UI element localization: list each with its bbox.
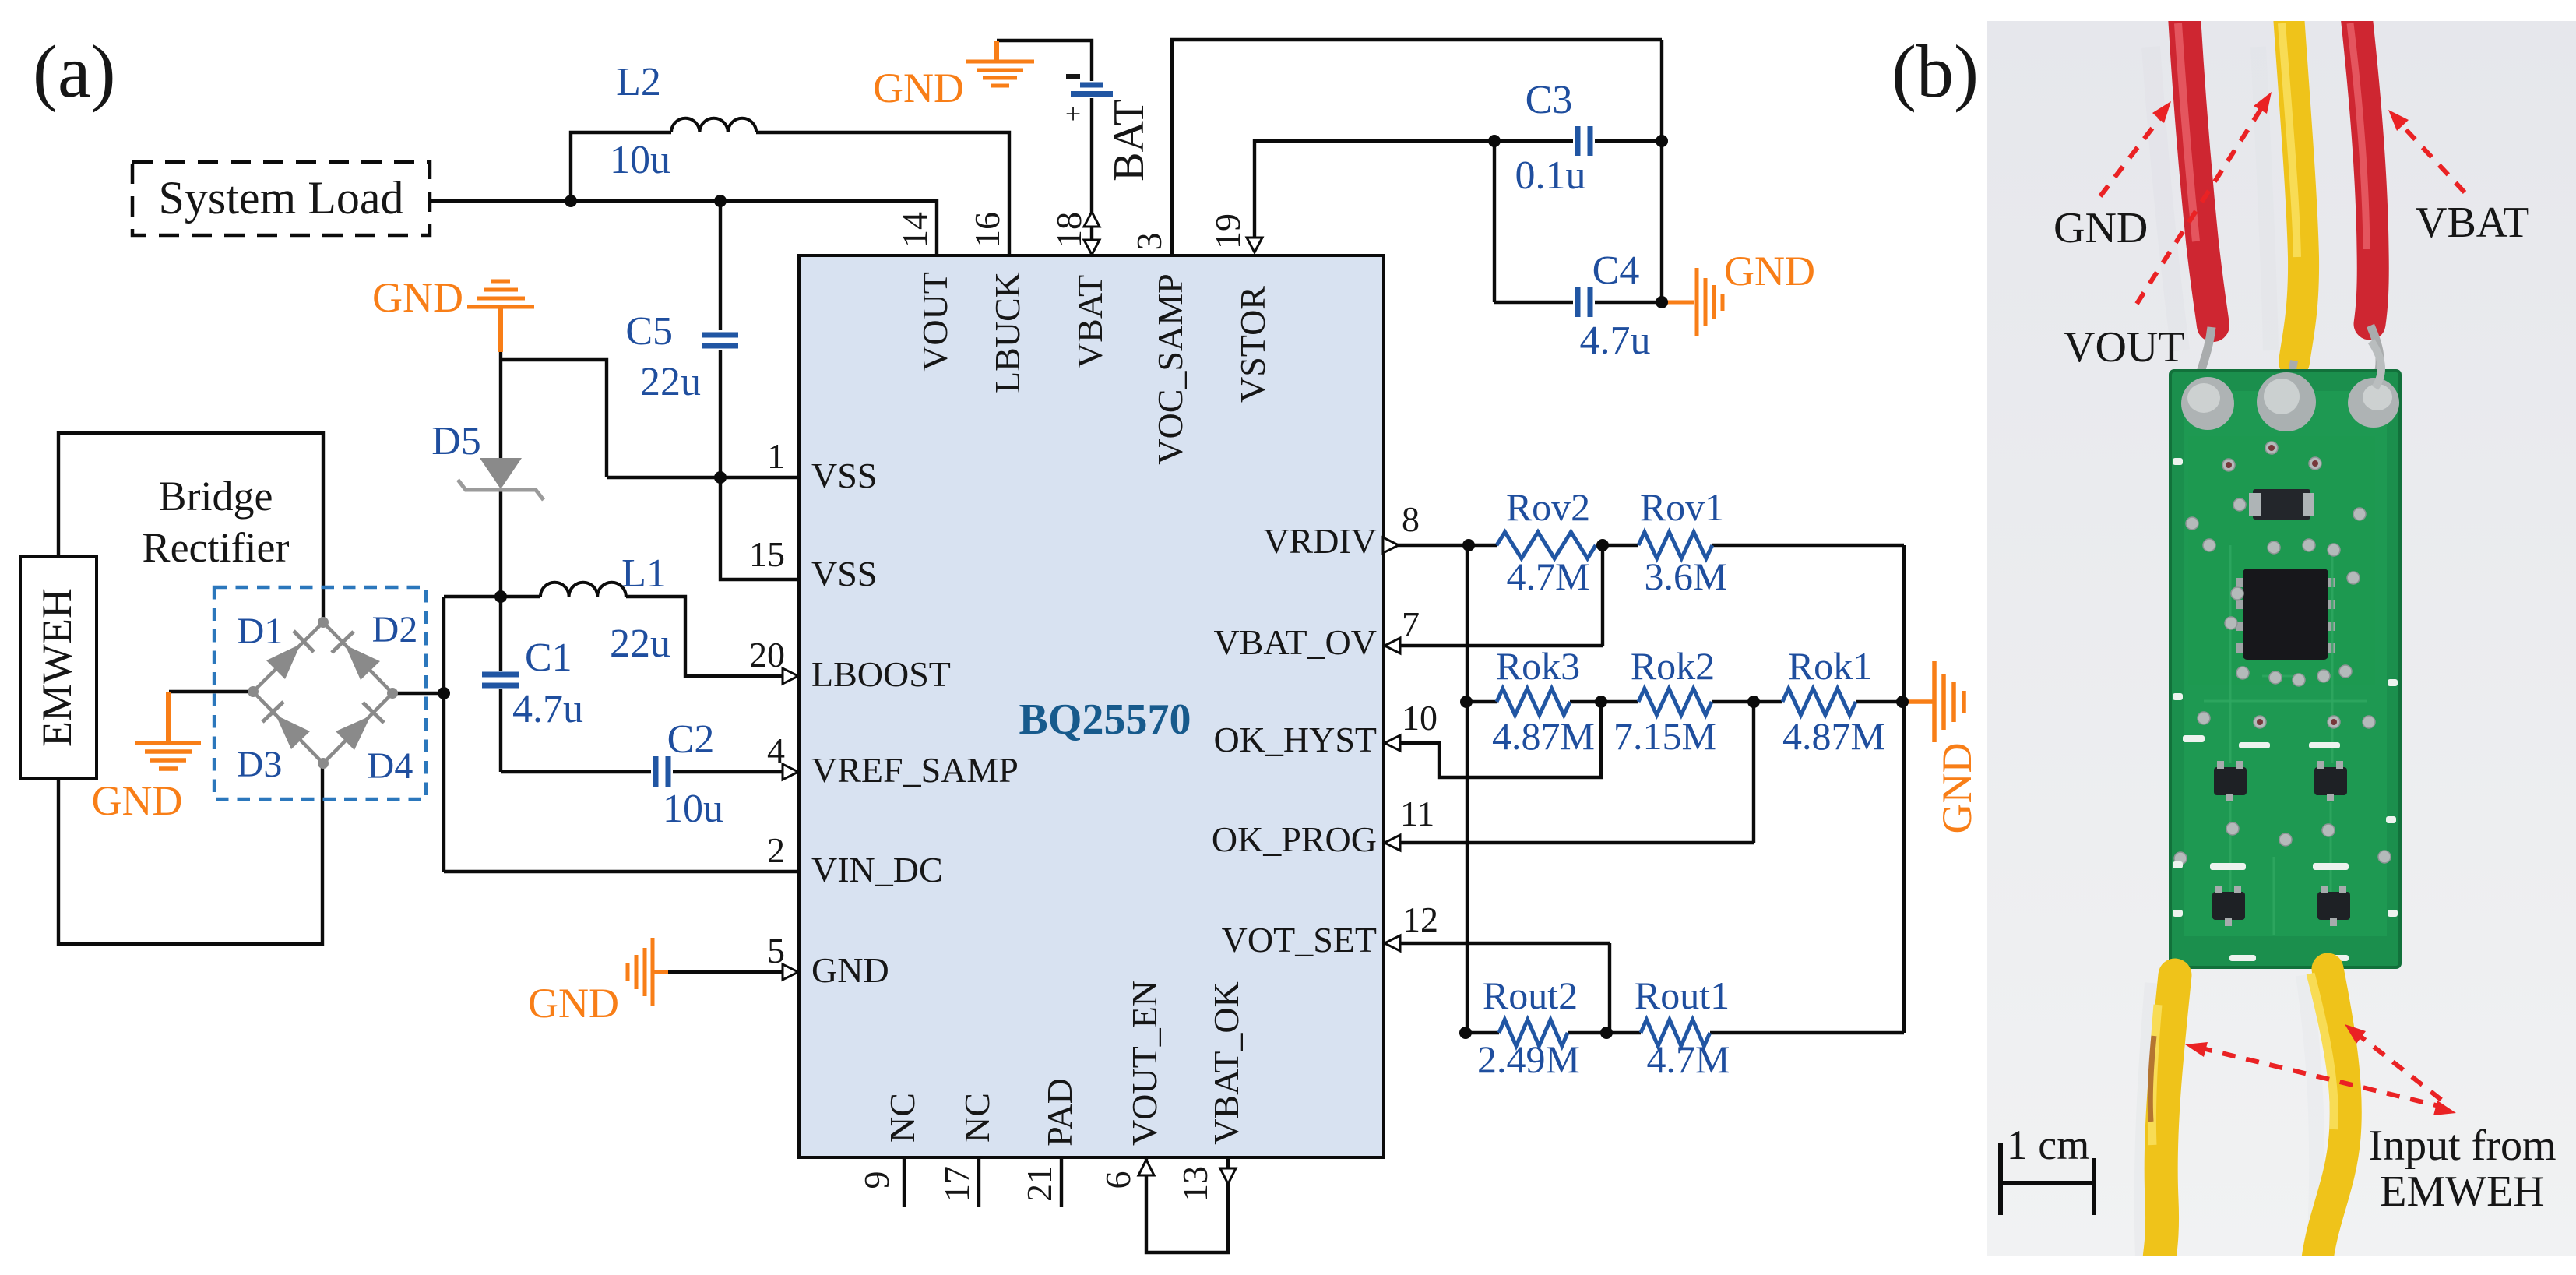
- svg-text:OK_HYST: OK_HYST: [1213, 720, 1377, 759]
- svg-text:5: 5: [767, 931, 785, 970]
- svg-text:22u: 22u: [640, 360, 701, 404]
- svg-text:+: +: [1065, 98, 1081, 129]
- svg-text:BAT: BAT: [1105, 99, 1153, 181]
- svg-text:1: 1: [767, 436, 785, 476]
- svg-text:Rov1: Rov1: [1640, 485, 1724, 529]
- svg-text:2.49M: 2.49M: [1477, 1037, 1580, 1081]
- svg-text:OK_PROG: OK_PROG: [1212, 819, 1377, 859]
- svg-text:VBAT: VBAT: [2416, 199, 2529, 247]
- svg-text:C5: C5: [625, 309, 673, 354]
- svg-text:VOC_SAMP: VOC_SAMP: [1150, 273, 1190, 464]
- svg-text:4.87M: 4.87M: [1492, 714, 1595, 758]
- svg-text:VOUT_EN: VOUT_EN: [1124, 981, 1164, 1146]
- svg-text:14: 14: [895, 212, 934, 248]
- svg-text:Bridge: Bridge: [159, 473, 273, 520]
- svg-text:VREF_SAMP: VREF_SAMP: [811, 750, 1019, 790]
- svg-text:4.7u: 4.7u: [512, 687, 583, 731]
- svg-text:Rout2: Rout2: [1483, 974, 1578, 1017]
- svg-text:VIN_DC: VIN_DC: [811, 850, 943, 889]
- svg-text:PAD: PAD: [1040, 1078, 1079, 1146]
- svg-text:BQ25570: BQ25570: [1019, 696, 1191, 744]
- svg-text:10u: 10u: [610, 138, 670, 182]
- svg-text:System Load: System Load: [159, 172, 404, 224]
- svg-text:VSTOR: VSTOR: [1233, 286, 1272, 403]
- svg-text:Input from: Input from: [2368, 1122, 2556, 1170]
- svg-text:D4: D4: [368, 745, 413, 787]
- svg-text:LBOOST: LBOOST: [811, 654, 951, 694]
- svg-text:L2: L2: [616, 60, 661, 104]
- svg-text:Rectifier: Rectifier: [143, 524, 290, 571]
- svg-text:3: 3: [1129, 233, 1169, 251]
- svg-text:VSS: VSS: [811, 456, 877, 495]
- svg-text:C2: C2: [667, 717, 715, 762]
- svg-text:Rov2: Rov2: [1506, 485, 1590, 529]
- svg-text:NC: NC: [882, 1093, 922, 1143]
- svg-text:6: 6: [1098, 1171, 1138, 1189]
- svg-text:GND: GND: [873, 65, 964, 111]
- svg-text:C1: C1: [525, 636, 572, 680]
- svg-text:GND: GND: [811, 950, 889, 990]
- svg-text:VRDIV: VRDIV: [1263, 521, 1377, 561]
- svg-text:13: 13: [1175, 1166, 1215, 1202]
- svg-text:20: 20: [749, 635, 785, 674]
- svg-text:VBAT_OK: VBAT_OK: [1206, 981, 1246, 1145]
- svg-text:7: 7: [1402, 604, 1420, 644]
- svg-text:LBUCK: LBUCK: [987, 272, 1027, 393]
- svg-text:VBAT_OV: VBAT_OV: [1213, 622, 1377, 662]
- svg-text:EMWEH: EMWEH: [2380, 1168, 2545, 1216]
- svg-text:GND: GND: [372, 274, 463, 321]
- svg-text:VOUT: VOUT: [2064, 323, 2185, 372]
- svg-text:GND: GND: [2053, 204, 2148, 252]
- svg-text:GND: GND: [528, 980, 619, 1027]
- svg-text:D3: D3: [237, 744, 283, 785]
- svg-text:10: 10: [1402, 698, 1438, 738]
- svg-text:7.15M: 7.15M: [1614, 714, 1716, 758]
- svg-text:4: 4: [767, 731, 785, 770]
- svg-text:16: 16: [967, 212, 1007, 248]
- svg-text:4.7M: 4.7M: [1647, 1037, 1730, 1081]
- svg-text:GND: GND: [1724, 248, 1815, 294]
- svg-text:3.6M: 3.6M: [1645, 555, 1728, 598]
- svg-text:11: 11: [1400, 794, 1434, 833]
- svg-text:9: 9: [857, 1171, 896, 1189]
- svg-text:D2: D2: [372, 609, 418, 650]
- svg-text:D1: D1: [238, 611, 283, 652]
- svg-text:VOUT: VOUT: [915, 272, 955, 372]
- svg-text:4.87M: 4.87M: [1782, 714, 1885, 758]
- svg-text:15: 15: [749, 534, 785, 574]
- svg-text:18: 18: [1049, 212, 1089, 248]
- svg-text:D5: D5: [431, 419, 481, 463]
- svg-text:4.7M: 4.7M: [1507, 555, 1590, 598]
- svg-text:NC: NC: [957, 1093, 997, 1143]
- svg-text:0.1u: 0.1u: [1515, 153, 1586, 198]
- svg-text:EMWEH: EMWEH: [33, 588, 80, 747]
- svg-text:GND: GND: [92, 777, 183, 824]
- svg-text:VOT_SET: VOT_SET: [1222, 920, 1377, 960]
- svg-text:Rok1: Rok1: [1788, 644, 1872, 688]
- svg-text:Rok2: Rok2: [1631, 644, 1715, 688]
- svg-text:19: 19: [1208, 213, 1248, 249]
- svg-text:10u: 10u: [663, 787, 723, 831]
- svg-text:L1: L1: [621, 551, 667, 596]
- svg-text:C3: C3: [1526, 78, 1573, 122]
- svg-text:4.7u: 4.7u: [1580, 319, 1651, 363]
- svg-text:VSS: VSS: [811, 554, 877, 593]
- svg-text:(a): (a): [33, 30, 116, 113]
- svg-text:VBAT: VBAT: [1070, 275, 1110, 368]
- svg-text:Rok3: Rok3: [1496, 644, 1580, 688]
- svg-text:1 cm: 1 cm: [2007, 1122, 2089, 1168]
- svg-text:12: 12: [1402, 900, 1438, 939]
- svg-text:8: 8: [1402, 499, 1420, 539]
- svg-text:Rout1: Rout1: [1635, 974, 1730, 1017]
- svg-text:2: 2: [767, 830, 785, 870]
- svg-text:GND: GND: [1934, 743, 1980, 834]
- svg-text:C4: C4: [1592, 248, 1640, 293]
- svg-text:(b): (b): [1892, 30, 1979, 113]
- svg-text:17: 17: [937, 1166, 977, 1202]
- svg-text:22u: 22u: [610, 622, 670, 666]
- svg-text:21: 21: [1019, 1166, 1059, 1202]
